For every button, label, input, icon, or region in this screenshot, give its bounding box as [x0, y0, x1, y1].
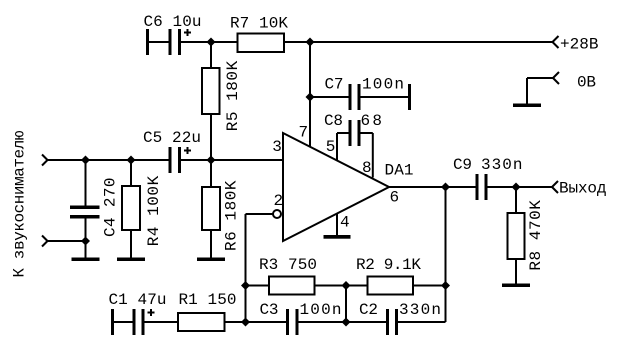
svg-text:330n: 330n: [399, 301, 441, 319]
terminal +28V: [553, 36, 559, 48]
svg-text:C1 47u: C1 47u: [109, 291, 167, 309]
wire node to C4: [85, 160, 87, 206]
svg-text:100n: 100n: [300, 301, 342, 319]
wire input bottom: [48, 240, 86, 242]
wire R2 to node C: [413, 285, 446, 287]
wire node C vertical: [445, 187, 447, 322]
wire node B to C2: [346, 321, 386, 323]
junction on rail at R5: [207, 38, 216, 47]
wire node to R4: [130, 160, 132, 186]
label C3 100n: [260, 301, 342, 319]
svg-text:C4 270: C4 270: [102, 178, 120, 238]
junction C7 tap: [306, 93, 315, 102]
svg-text:C3: C3: [260, 301, 279, 319]
capacitor C2: [386, 309, 398, 335]
label C8 68: [324, 112, 382, 130]
capacitor C1: [111, 309, 155, 335]
junction node B C: [342, 318, 351, 327]
wire C4 to bottom node: [85, 219, 87, 258]
wire R3 to node B: [315, 285, 347, 287]
capacitor C7: [349, 84, 412, 110]
ground C4: [72, 258, 100, 262]
wire output to C9: [389, 186, 476, 188]
wire +28V rail left segment: [149, 41, 169, 43]
ground 0V: [513, 104, 541, 108]
resistor R5: [202, 68, 220, 114]
label C2 330n: [359, 301, 441, 319]
svg-text:R1 150: R1 150: [179, 291, 237, 309]
wire node A to R3: [246, 285, 270, 287]
svg-text:+28В: +28В: [560, 36, 599, 54]
terminal input bottom: [42, 236, 48, 247]
resistor R3: [269, 277, 315, 295]
resistor R8: [508, 213, 525, 259]
wire R6 to ground: [210, 230, 212, 258]
junction node B R: [342, 281, 351, 290]
svg-text:R6 180K: R6 180K: [223, 180, 241, 251]
wire C2 to node C: [398, 321, 446, 323]
wire node B to R2: [346, 285, 368, 287]
svg-text:C8: C8: [324, 112, 343, 130]
wire C6 to R7: [181, 41, 238, 43]
wire input top to C5: [48, 159, 169, 161]
ground pin4: [324, 235, 351, 239]
wire R4 to ground: [130, 230, 132, 258]
resistor R7: [238, 34, 285, 53]
wire R5 to input node: [210, 114, 212, 160]
ground R8: [502, 284, 530, 288]
svg-text:R2 9.1K: R2 9.1K: [356, 256, 421, 274]
svg-text:100n: 100n: [362, 76, 404, 94]
svg-text:К звукоснимателю: К звукоснимателю: [11, 130, 29, 277]
capacitor C9: [476, 174, 488, 200]
svg-text:DA1: DA1: [385, 162, 414, 180]
label C7 100n: [325, 76, 405, 94]
svg-text:R4 100K: R4 100K: [145, 175, 163, 246]
junction R4 tap: [127, 156, 136, 165]
wire output to R8: [515, 187, 517, 213]
ground R6: [197, 258, 225, 262]
svg-text:C9: C9: [453, 156, 472, 174]
capacitor C4: [70, 206, 100, 219]
resistor R4: [122, 186, 140, 230]
capacitor C3: [286, 309, 299, 335]
op-amp DA1: [283, 133, 389, 241]
svg-text:R5 180K: R5 180K: [224, 60, 242, 131]
junction R8 tap: [512, 183, 521, 192]
svg-text:8: 8: [362, 159, 372, 177]
wire rail to R5: [210, 42, 212, 68]
svg-text:C5 22u: C5 22u: [143, 129, 201, 147]
wire node A to C3: [246, 321, 287, 323]
wire 0V terminal to ground: [527, 78, 553, 104]
svg-text:4: 4: [340, 214, 350, 232]
junction output feedback: [441, 183, 450, 192]
capacitor C8: [349, 120, 361, 146]
junction node A C3: [241, 318, 250, 327]
wire pin7 to C7: [310, 96, 349, 98]
capacitor C6: [146, 29, 191, 55]
resistor R6: [202, 187, 220, 230]
wire node to R6: [210, 160, 212, 187]
svg-text:C6 10u: C6 10u: [144, 13, 202, 31]
svg-text:6: 6: [390, 189, 400, 207]
svg-text:R8 470K: R8 470K: [527, 200, 545, 271]
pin 5 wire: [337, 133, 349, 161]
pin 2 wire: [246, 213, 274, 215]
terminal Выход: [552, 181, 558, 193]
svg-text:C2: C2: [359, 301, 378, 319]
terminal 0V: [553, 72, 559, 84]
wire node A vertical: [245, 214, 247, 322]
wire R1 to node A: [225, 321, 246, 323]
wire node B vertical: [345, 286, 347, 323]
resistor R2: [368, 277, 414, 295]
label C9 330n: [453, 156, 523, 174]
svg-text:R7 10K: R7 10K: [230, 15, 288, 33]
svg-text:7: 7: [299, 124, 309, 142]
junction R5 R6 node: [207, 156, 216, 165]
svg-text:330n: 330n: [481, 156, 523, 174]
resistor R1: [178, 313, 225, 331]
wire C1 to R1: [145, 321, 179, 323]
svg-text:R3 750: R3 750: [259, 256, 317, 274]
svg-text:C7: C7: [325, 76, 344, 94]
pin 8 wire: [361, 133, 373, 178]
wire R8 to ground: [515, 259, 517, 284]
svg-text:2: 2: [274, 192, 284, 210]
pin 4 wire: [336, 214, 338, 236]
wire C5 to pin3: [181, 159, 283, 161]
wire C9 to output terminal: [488, 186, 553, 188]
junction C4 tap: [81, 156, 90, 165]
svg-text:3: 3: [272, 138, 282, 156]
junction input bottom: [81, 237, 90, 246]
ground R4: [117, 258, 145, 262]
svg-text:0В: 0В: [577, 74, 596, 92]
pin 2 bubble: [273, 210, 281, 218]
junction node C R2: [441, 281, 450, 290]
terminal input top: [42, 155, 48, 166]
svg-text:Выход: Выход: [559, 180, 607, 198]
junction on rail at pin7: [306, 38, 315, 47]
wire R7 to +28V terminal: [284, 41, 553, 43]
junction node A R3: [241, 281, 250, 290]
svg-text:5: 5: [326, 138, 336, 156]
capacitor C5: [169, 147, 192, 173]
wire pin7 vertical: [309, 42, 311, 148]
wire C3 to node B: [299, 321, 347, 323]
